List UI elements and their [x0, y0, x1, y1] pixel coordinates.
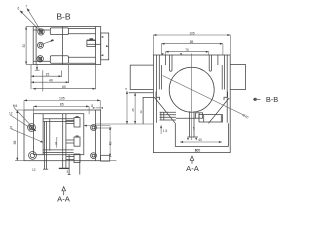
svg-text:3: 3 [67, 170, 69, 174]
svg-text:5: 5 [125, 87, 127, 91]
small dim body to offset line [84, 125, 110, 127]
dim line b3 [33, 88, 96, 90]
svg-text:40: 40 [198, 138, 202, 142]
bar block 1 [74, 118, 80, 127]
screw C2 [38, 42, 44, 48]
svg-text:11: 11 [10, 125, 14, 129]
bottom rail bar [68, 56, 95, 58]
leader 1 [14, 108, 36, 131]
tiny dim labels B-B view [18, 4, 66, 89]
arrows dim f2 [166, 51, 169, 53]
slot right [209, 55, 211, 71]
top rail bar [68, 33, 95, 35]
base block [175, 123, 228, 146]
screw shafts [62, 114, 64, 169]
svg-text:A-A: A-A [57, 195, 71, 204]
tab right [101, 155, 110, 161]
clamp plates left [160, 111, 177, 113]
svg-text:Ø40: Ø40 [242, 113, 250, 119]
wire right inner 2 [223, 55, 225, 90]
arrows jaw dim [126, 91, 128, 94]
outer plate [24, 110, 101, 161]
svg-text:15: 15 [46, 72, 50, 76]
stem foot [187, 136, 198, 138]
svg-text:M4: M4 [13, 104, 18, 108]
left flange [130, 65, 153, 89]
chamfer left [154, 97, 175, 123]
arrow leader3 [40, 141, 43, 143]
body outline [33, 27, 101, 65]
wire left inner 2 [158, 55, 160, 90]
ticks on top edge [161, 53, 163, 55]
corner screw TL [28, 124, 36, 132]
dim right vertical [109, 127, 111, 157]
small dim inner [56, 137, 58, 148]
section label B-B right [253, 95, 279, 104]
arrows dim a1 [24, 99, 27, 101]
ext line right long [101, 160, 117, 162]
top slot block [50, 28, 68, 35]
arrows dim right [109, 127, 111, 130]
tiny labels front view [125, 31, 249, 152]
dim line f1 top [161, 43, 223, 45]
jaw dim vertical B [134, 93, 136, 124]
svg-text:40: 40 [108, 142, 112, 146]
arrows small top right dim [93, 107, 95, 109]
inner body [34, 114, 84, 155]
base dim [180, 141, 222, 143]
left flange lower line [129, 92, 154, 94]
inner vertical left2 [49, 119, 51, 151]
arrow leader1 tip [33, 129, 36, 132]
rod [68, 155, 70, 175]
svg-text:85: 85 [60, 103, 64, 107]
dim small top right [95, 107, 100, 109]
arrows dim b3 [33, 88, 36, 90]
inner cavity walls [165, 55, 167, 65]
screw C1 [38, 29, 44, 35]
body outline [153, 55, 230, 153]
section arrow A-A bottom-center [190, 156, 194, 164]
svg-text:12: 12 [9, 111, 13, 115]
jaw dim vertical A [126, 91, 128, 124]
leader 2 to screw C1 [27, 8, 42, 32]
screw C3 [37, 56, 43, 62]
bar block 2 [74, 137, 80, 146]
svg-text:30: 30 [22, 44, 26, 48]
arrows dim b2 [31, 81, 34, 83]
svg-text:60: 60 [62, 85, 66, 89]
guide line bottom [43, 149, 74, 151]
wire mid vertical [61, 27, 63, 65]
wire inner bottom rail [33, 60, 50, 62]
bar links [66, 120, 74, 122]
step below right flange [224, 92, 228, 100]
chamfer right [209, 98, 230, 123]
svg-text:A-A: A-A [186, 164, 200, 173]
dim extension verticals below body [30, 65, 32, 90]
right flange [101, 33, 109, 60]
svg-text:8: 8 [91, 104, 93, 108]
svg-text:12: 12 [139, 110, 143, 114]
svg-text:105: 105 [59, 97, 65, 101]
svg-text:6: 6 [55, 142, 57, 146]
mid box [87, 40, 96, 46]
mid box notch [90, 39, 93, 40]
section arrow A-A bottom-left [62, 187, 66, 196]
leader arrowhead 2 [27, 8, 30, 11]
leader arrowhead 1 [20, 11, 23, 14]
leader from screw C2 [42, 41, 52, 45]
arrows dim b1 [31, 75, 34, 77]
right clamp block [199, 115, 223, 122]
svg-text:105: 105 [189, 31, 195, 35]
big circle [169, 67, 214, 112]
small box right of stem [196, 113, 203, 118]
arrows dim left [16, 110, 18, 113]
step below left flange [156, 92, 160, 100]
svg-text:12: 12 [32, 168, 36, 172]
inner vertical left [42, 114, 44, 155]
bottom slot block [50, 56, 68, 63]
projection line between views [95, 123, 153, 125]
svg-text:85: 85 [190, 40, 194, 44]
wire mid box to wall [87, 43, 101, 45]
wire right inner 3 [221, 65, 223, 89]
inner screw pair [44, 122, 46, 170]
slot left [170, 55, 173, 71]
leader dot C2 [51, 39, 54, 41]
svg-text:B-B: B-B [56, 11, 71, 21]
svg-text:105: 105 [195, 149, 201, 153]
center line [191, 54, 193, 141]
arrow small clamp dim [160, 125, 162, 128]
svg-text:40: 40 [49, 78, 53, 82]
wire left inner 3 [161, 65, 163, 89]
shaft foot [59, 167, 69, 169]
arrows base dim [180, 141, 183, 143]
dim line b1 [31, 75, 62, 77]
leader to screw C1 [20, 11, 41, 32]
corner screw BL [29, 152, 37, 160]
diameter dim line [163, 76, 244, 116]
dim line f0 top [153, 34, 230, 36]
dim left vertical [16, 110, 18, 161]
svg-text:25: 25 [131, 108, 135, 112]
wire inner top rail [33, 29, 50, 31]
arrow step [36, 67, 38, 70]
svg-text:5: 5 [193, 127, 195, 131]
svg-text:68: 68 [13, 141, 17, 145]
wire left inner 1 [155, 55, 157, 123]
dim line f2 top [166, 51, 209, 53]
dim line left of B-B body [25, 27, 27, 65]
arrows dim f1 [161, 43, 164, 45]
right flange [230, 65, 245, 90]
svg-text:6: 6 [18, 7, 20, 11]
dim line b2 [31, 81, 69, 83]
corner screw TR [91, 125, 97, 131]
guide lines top [43, 118, 74, 120]
leader 3 [11, 129, 43, 143]
inner offset vertical right [94, 110, 96, 161]
wire right inner vertical [95, 27, 97, 65]
arrows dim a2 [34, 105, 37, 107]
small dim under left clamp [160, 125, 162, 134]
stem [189, 111, 191, 137]
corner screw BR [91, 153, 97, 159]
svg-text:1.5: 1.5 [163, 129, 168, 133]
wire right inner 1 [226, 55, 228, 123]
dim line a2 top [34, 105, 90, 107]
svg-text:B-B: B-B [266, 95, 278, 104]
wire across stem [176, 117, 196, 119]
bar block 3 [74, 154, 80, 163]
dim line a1 top [24, 99, 100, 101]
section arrow symbol [254, 98, 257, 101]
flange tick arrows [101, 36, 104, 38]
dim arrows left line [25, 27, 27, 30]
tiny labels A-A view [9, 97, 112, 174]
leader 2 [10, 115, 32, 130]
tiny arrows under stem foot [187, 138, 189, 141]
left jaw block [143, 97, 154, 124]
svg-text:7: 7 [26, 4, 28, 8]
arrows dim f0 [153, 34, 156, 36]
svg-text:70: 70 [185, 48, 189, 52]
step below body [36, 65, 38, 71]
wire inner left vertical [35, 27, 37, 65]
